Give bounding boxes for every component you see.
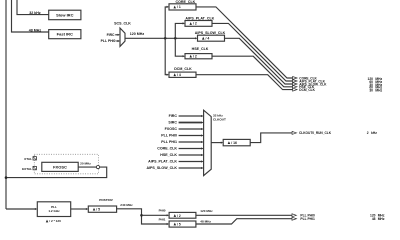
svg-text:EXTAL: EXTAL — [22, 167, 32, 171]
wire AIPS_PLAT input — [175, 23, 183, 38]
svg-text:Slow IRC: Slow IRC — [56, 13, 73, 18]
svg-text:FIRC: FIRC — [169, 114, 178, 118]
pin PLL PHI0 arrow — [292, 214, 296, 217]
wire CORE output — [196, 7, 293, 78]
pin AIPS_SLOW_CLK out arrow — [293, 83, 297, 86]
node junction PHI — [140, 214, 143, 217]
pin AIPS_PLAT_CLK out arrow — [293, 80, 297, 83]
svg-text:PLL PHI1: PLL PHI1 — [161, 140, 177, 144]
svg-text:AIPS_SLOW_CLK: AIPS_SLOW_CLK — [195, 31, 226, 35]
svg-text:/ 2: / 2 — [193, 22, 197, 26]
svg-text:/ 1: / 1 — [177, 5, 181, 9]
module FXOSC dotted boundary — [34, 154, 98, 174]
oscillator Slow IRC — [49, 10, 81, 20]
svg-text:120 MHz: 120 MHz — [130, 32, 145, 36]
oscillator FXOSC — [42, 162, 78, 171]
svg-text:POSTDIV: POSTDIV — [99, 198, 114, 202]
pin CLKOUT0_RUN_CLK arrow — [292, 131, 296, 134]
svg-text:HSE_CLK: HSE_CLK — [192, 47, 209, 51]
wire HSE input — [175, 38, 183, 56]
wire CORE input — [165, 7, 167, 38]
divider DCM /4 — [169, 72, 196, 77]
svg-text:/ 2: / 2 — [177, 214, 181, 218]
node junction SCS-B — [174, 37, 177, 40]
svg-text:/ 2 * 120: / 2 * 120 — [49, 219, 61, 223]
wire Fast IRC feed — [12, 0, 49, 32]
svg-text:XTAL: XTAL — [24, 157, 32, 161]
pll PLL box — [37, 202, 70, 217]
pin DCM_CLK out arrow — [293, 88, 297, 91]
svg-text:AIPS_PLAT_CLK: AIPS_PLAT_CLK — [185, 17, 214, 21]
svg-text:FXOSC: FXOSC — [165, 127, 178, 131]
mux CLKOUT — [204, 110, 212, 175]
svg-text:2: 2 — [367, 131, 369, 135]
wire spine to PLL — [6, 208, 36, 210]
svg-text:32 kHz: 32 kHz — [29, 11, 41, 15]
pin CORE_CLK out arrow — [293, 77, 297, 80]
divider PHI1 /5 — [169, 221, 196, 227]
svg-text:PHI1: PHI1 — [159, 217, 166, 221]
svg-text:20 MHz: 20 MHz — [80, 161, 91, 165]
divider AIPS_SLOW /4 — [198, 35, 225, 41]
svg-text:CLKOUT0_RUN_CLK: CLKOUT0_RUN_CLK — [299, 131, 332, 135]
node FXOSC pin circle — [96, 166, 99, 169]
svg-text:CLKOUT: CLKOUT — [213, 117, 226, 121]
svg-text:DCM_CLK: DCM_CLK — [299, 88, 315, 92]
svg-text:AIPS_PLAT_CLK: AIPS_PLAT_CLK — [148, 160, 177, 164]
svg-text:/ 5: / 5 — [96, 207, 100, 211]
wire CLKOUT mux output — [211, 142, 221, 144]
svg-text:120 MHz: 120 MHz — [200, 209, 213, 213]
wire POSTDIV output — [117, 209, 168, 224]
svg-text:SCS_CLK: SCS_CLK — [114, 21, 131, 25]
svg-text:30: 30 — [369, 89, 373, 93]
svg-text:1.2 GHz: 1.2 GHz — [48, 209, 60, 213]
svg-text:Fast IRC: Fast IRC — [57, 32, 73, 37]
divider CLKOUT /16 — [223, 139, 250, 145]
wire PLL to POSTDIV — [71, 208, 87, 210]
svg-text:DCM_CLK: DCM_CLK — [174, 67, 192, 71]
wire Slow IRC feed — [17, 0, 49, 15]
wire FXOSC to spine — [6, 167, 107, 178]
svg-text:AIPS_SLOW_CLK: AIPS_SLOW_CLK — [146, 166, 177, 170]
wire DCM input — [165, 38, 167, 74]
svg-text:kHz: kHz — [371, 131, 377, 135]
node junction spine — [5, 176, 8, 179]
svg-text:PLL PHI0: PLL PHI0 — [161, 134, 177, 138]
wire HSE output — [212, 56, 293, 87]
svg-text:/ 4: / 4 — [177, 73, 181, 77]
svg-text:/ 16: / 16 — [231, 141, 237, 145]
wire PHI0 input — [142, 214, 168, 216]
svg-text:/ 5: / 5 — [177, 222, 181, 226]
svg-text:SIRC: SIRC — [168, 121, 177, 125]
svg-text:48: 48 — [372, 217, 376, 221]
wire SCS output bus — [125, 37, 196, 39]
svg-text:48 MHz: 48 MHz — [29, 28, 42, 32]
wire PHI0 output — [196, 214, 292, 216]
wire AIPS_SLOW output — [225, 38, 293, 84]
svg-text:CORE_CLK: CORE_CLK — [157, 147, 177, 151]
svg-text:MHz: MHz — [378, 217, 385, 221]
divider PHI0 /2 — [169, 212, 196, 218]
svg-text:MHz: MHz — [375, 89, 382, 93]
svg-text:/ 2: / 2 — [193, 54, 197, 58]
wire PHI1 output — [196, 219, 292, 224]
svg-text:48 MHz: 48 MHz — [200, 220, 211, 224]
label PLL ratio /2*120 — [46, 220, 49, 223]
wire FXOSC output — [78, 166, 96, 168]
node junction SCS-A — [164, 37, 167, 40]
pin PLL PHI1 arrow — [292, 217, 296, 220]
divider AIPS_PLAT /2 — [185, 21, 212, 27]
svg-text:/ 4: / 4 — [206, 36, 210, 40]
svg-text:PHI0: PHI0 — [159, 209, 166, 213]
svg-text:240 MHz: 240 MHz — [120, 203, 133, 207]
divider HSE /2 — [185, 54, 212, 59]
divider CORE /1 — [169, 4, 196, 10]
wire FXOSC spine vertical — [5, 0, 7, 209]
svg-text:PLL PHI0: PLL PHI0 — [101, 39, 116, 43]
wire AIPS_PLAT output — [212, 23, 293, 81]
oscillator Fast IRC — [49, 30, 81, 39]
pin HSE_CLK out arrow — [293, 85, 297, 88]
wire CLKOUT divider output — [250, 133, 292, 143]
svg-text:PLL PHI1: PLL PHI1 — [300, 217, 315, 221]
mux SCS — [120, 28, 125, 46]
svg-text:FIRC: FIRC — [107, 33, 115, 37]
svg-text:HSE_CLK: HSE_CLK — [160, 153, 177, 157]
divider POSTDIV /5 — [88, 206, 116, 212]
wire DCM output — [196, 75, 293, 90]
svg-text:FXOSC: FXOSC — [53, 164, 67, 169]
